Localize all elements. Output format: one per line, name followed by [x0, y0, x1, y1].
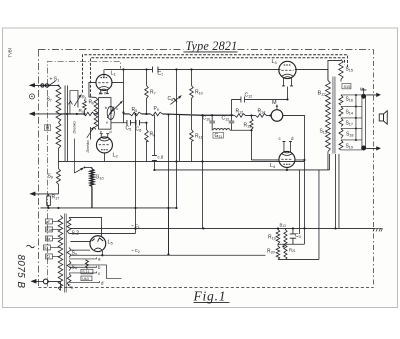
svg-text:H: H — [360, 86, 363, 91]
bias wires — [278, 170, 319, 260]
document number 8075B (rotated, left margin) — [15, 254, 26, 288]
wire S2 bottom — [69, 232, 135, 234]
label R5 — [131, 107, 137, 113]
label L3 — [271, 59, 277, 65]
label H — [360, 86, 363, 91]
label G10 — [95, 174, 103, 180]
svg-text:S.11: S.11 — [82, 270, 89, 274]
wire grid line — [58, 114, 233, 115]
rectifier tube L5 — [90, 236, 106, 252]
primary taps — [43, 219, 60, 259]
svg-text:d: d — [109, 130, 111, 134]
winding S17 — [339, 118, 343, 127]
caption Fig.1 handwritten — [192, 288, 229, 303]
label S2 — [71, 230, 79, 236]
oscillator switch — [74, 167, 92, 173]
label S15 — [345, 66, 353, 72]
label c — [278, 136, 281, 141]
label R11 — [195, 133, 203, 139]
svg-text:e: e — [100, 130, 102, 134]
label Drehko — [72, 121, 76, 133]
speaker — [379, 111, 387, 124]
label R10 — [195, 89, 203, 95]
label d — [291, 136, 294, 141]
label b — [98, 265, 101, 270]
label B12 — [317, 90, 326, 96]
svg-text:TVBl: TVBl — [7, 48, 12, 57]
earth terminal — [29, 111, 59, 116]
label C7 — [157, 71, 163, 77]
label S16 — [345, 96, 353, 102]
AF bus rail2 — [154, 169, 329, 171]
svg-text:S1: S1 — [44, 246, 48, 250]
mains transformer primary — [58, 215, 63, 290]
label R13 — [243, 122, 251, 128]
label tap uF — [44, 220, 52, 259]
label C3 — [295, 233, 301, 239]
winding S16 — [339, 95, 343, 105]
resistor R11 — [190, 114, 194, 161]
label U3 — [82, 277, 89, 281]
resistor R14 — [255, 114, 271, 118]
winding S14 — [339, 106, 343, 116]
output leads — [366, 93, 381, 151]
label d2 — [101, 280, 104, 285]
wire long vertical — [122, 69, 124, 122]
resistor R6 — [145, 123, 149, 162]
label R14 — [257, 108, 265, 114]
winding S2 — [67, 217, 71, 233]
AC tilde — [26, 245, 34, 248]
HT rail C2 — [70, 254, 265, 256]
tube L1 — [96, 74, 112, 93]
svg-text:S2: S2 — [46, 255, 50, 259]
label Sg — [47, 173, 52, 179]
svg-text:Fig.1: Fig.1 — [192, 288, 226, 303]
label S8 — [105, 105, 108, 110]
svg-text:S1a: S1a — [46, 228, 52, 232]
coil S9 — [56, 161, 60, 194]
label L4 — [270, 163, 276, 169]
label C13 — [221, 115, 229, 121]
label R19 — [268, 234, 276, 240]
label Drehko2 — [86, 140, 90, 152]
coil G10 — [90, 167, 94, 208]
winding S18 — [339, 128, 343, 138]
svg-text:L4: L4 — [270, 163, 276, 169]
tap junction dots — [355, 94, 357, 141]
label P9 — [153, 106, 158, 112]
resistor R7 — [145, 69, 149, 114]
svg-text:L5: L5 — [107, 239, 113, 245]
label R21 — [289, 247, 296, 253]
label C8 — [167, 96, 173, 102]
resistor R21 — [284, 228, 287, 259]
capacitor C10 — [209, 115, 215, 130]
resistor R10 — [190, 69, 194, 114]
svg-text:Ea: Ea — [46, 237, 50, 241]
band switch box — [98, 98, 123, 130]
capacitor C3 — [290, 228, 296, 244]
label R6 — [149, 131, 155, 137]
resistor R13 — [250, 115, 253, 160]
wire vertical x168 — [167, 208, 169, 255]
label S14 — [345, 109, 353, 115]
svg-text:L2: L2 — [112, 152, 118, 158]
meter M — [271, 104, 283, 121]
label B11 — [213, 132, 224, 139]
svg-text:c: c — [116, 106, 118, 111]
svg-text:Uk3: Uk3 — [82, 277, 89, 281]
junction dots top — [66, 68, 192, 124]
transformer core — [333, 76, 335, 153]
label S3 — [71, 250, 76, 256]
tube L4 pins c d — [282, 141, 292, 152]
wire grid2 line — [111, 122, 147, 124]
capacitor C12 — [231, 96, 287, 115]
trimmer C8 — [170, 69, 181, 161]
label R12 — [235, 108, 243, 114]
svg-text:B13: B13 — [279, 222, 286, 228]
svg-text:Type 2821: Type 2821 — [185, 39, 237, 53]
wire S15 top — [328, 60, 341, 81]
resistor Rh — [94, 97, 98, 129]
label B — [44, 125, 50, 132]
grid-cap wire — [89, 69, 124, 97]
gang capacitor plates — [65, 85, 67, 161]
switch S1 — [49, 81, 56, 86]
svg-text:Drehko: Drehko — [86, 140, 90, 152]
anode wire L3 — [286, 86, 288, 99]
tube L2 — [96, 134, 112, 153]
capacitor C6 — [136, 120, 140, 126]
resistor R17 — [47, 194, 51, 208]
mains transformer core — [65, 213, 67, 292]
label C5 — [125, 125, 131, 131]
main HT bus — [104, 69, 328, 80]
wire L4 right — [295, 159, 305, 161]
label S18 — [346, 131, 354, 137]
label C1 — [131, 223, 140, 229]
svg-text:S.2: S.2 — [71, 230, 79, 236]
junction dots bottom — [47, 207, 336, 257]
capacitor C7 — [152, 66, 158, 72]
svg-text:8075 B: 8075 B — [15, 254, 26, 288]
label C6 — [135, 126, 141, 132]
svg-text:c.8: c.8 — [157, 154, 163, 159]
capacitor C8b — [152, 115, 157, 170]
tube L4 — [279, 151, 295, 167]
svg-text:L1: L1 — [110, 70, 116, 76]
tube L3 — [279, 61, 296, 78]
tube L3 pins — [282, 78, 293, 86]
meter out wire — [283, 115, 305, 228]
ground bus — [40, 161, 176, 208]
shield can (bold dashed lid) — [82, 55, 347, 97]
wire L2 cathode — [103, 153, 105, 161]
winding S15 — [339, 59, 343, 79]
wire L4 left — [251, 159, 279, 161]
label R17 — [51, 194, 59, 200]
svg-text:S15: S15 — [343, 84, 350, 89]
core mark — [68, 101, 72, 105]
resistor R1 — [83, 99, 87, 114]
antenna terminal — [29, 83, 60, 88]
svg-text:M: M — [272, 100, 277, 106]
label S7 — [46, 96, 51, 102]
label R1 — [81, 94, 86, 100]
pickup terminal — [29, 191, 58, 196]
coil S7 — [56, 85, 61, 122]
svg-text:Drehko: Drehko — [72, 121, 76, 133]
label M — [272, 100, 277, 106]
resistor R20 — [276, 244, 280, 260]
svg-text:µF: µF — [46, 220, 50, 224]
output taps — [341, 95, 362, 150]
label L5 — [107, 239, 113, 245]
label S6 — [106, 106, 118, 125]
winding S4 — [67, 260, 71, 270]
label S10 — [82, 270, 89, 274]
svg-text:R21: R21 — [289, 247, 296, 253]
wire C10 drop — [201, 115, 203, 228]
capacitor C13 — [229, 115, 235, 130]
label a — [98, 257, 101, 262]
svg-text:1b 7h: 1b 7h — [98, 91, 107, 95]
label pins L1 — [98, 91, 107, 95]
label L2 — [112, 152, 118, 158]
label c8b — [157, 154, 163, 159]
resistor R5 — [129, 112, 141, 116]
label pins L2 — [100, 130, 112, 134]
variable capacitor C1 — [70, 90, 82, 114]
title Type 2821 handwritten — [183, 39, 237, 53]
chassis dash-dot box (tuner shield) — [47, 61, 120, 286]
AF bus rail — [58, 160, 304, 162]
wire coupling — [74, 127, 94, 173]
label Rh — [88, 99, 94, 105]
output transformer B12 primary — [326, 80, 331, 151]
label C12 — [244, 92, 252, 98]
label S1 — [49, 76, 59, 82]
label S4 — [71, 264, 76, 270]
winding S19 — [339, 140, 343, 150]
svg-text:B12: B12 — [317, 90, 326, 96]
capacitor C5 — [127, 120, 131, 126]
wire drop from L4 — [298, 170, 300, 234]
wire plate L5 — [69, 217, 102, 255]
winding S3 — [67, 247, 71, 257]
label S19 — [345, 143, 353, 149]
plug strip — [361, 94, 366, 151]
ground hatch — [373, 228, 383, 231]
label c2 — [98, 271, 101, 276]
wire L4 bottom — [286, 167, 288, 170]
junction dots mid — [134, 98, 305, 209]
label R20 — [267, 248, 275, 254]
label R7 — [150, 89, 156, 95]
label B13 — [279, 222, 286, 228]
potentiometer P9 — [150, 112, 162, 116]
label S5 — [67, 284, 72, 290]
wire long vertical2 — [134, 114, 136, 234]
label S13 — [319, 128, 327, 134]
stamp TVBl (rotated, left margin top) — [7, 48, 12, 57]
wire long vertical3 — [167, 114, 169, 254]
transformer bottom wires — [328, 151, 339, 228]
coil B — [56, 122, 61, 161]
HT rail C1 — [70, 227, 374, 229]
mains plug terminal — [30, 279, 60, 291]
resistor R4 — [83, 112, 94, 116]
patent frame (dash-dot border) — [38, 49, 373, 287]
svg-text:L3: L3 — [271, 59, 277, 65]
label C10 — [202, 115, 210, 121]
label C2 — [131, 248, 140, 254]
taps a b c d — [69, 257, 121, 282]
choke B11 — [213, 129, 252, 131]
resistor R12 — [233, 114, 255, 118]
antenna symbol — [29, 94, 34, 99]
resistor R19 — [276, 228, 280, 244]
plug H symbol — [361, 88, 367, 94]
winding S5 — [67, 273, 71, 285]
label S17 — [345, 120, 353, 126]
label L1 — [110, 70, 116, 76]
label S15 boxed — [342, 83, 351, 88]
label R4 — [78, 108, 83, 114]
